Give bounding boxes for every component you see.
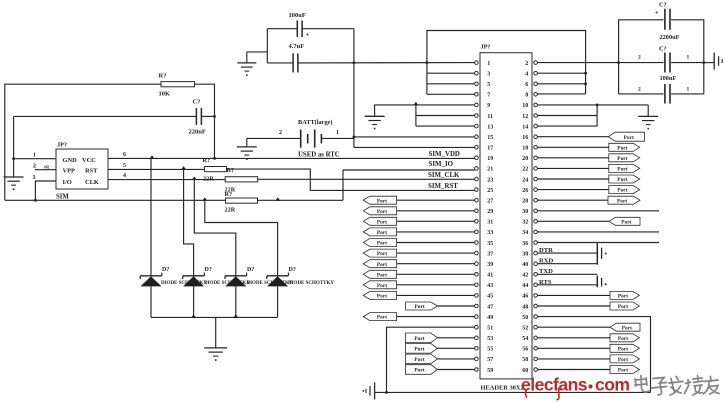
SIM I/O rail xyxy=(5,199,343,201)
battery BATT(large) xyxy=(298,119,340,159)
wire pin51 to ground rail xyxy=(385,327,475,394)
capacitor C? 220nF xyxy=(189,99,206,136)
svg-text:Port: Port xyxy=(618,346,628,352)
svg-text:41: 41 xyxy=(487,273,493,279)
net label RTS xyxy=(539,279,552,286)
svg-text:1: 1 xyxy=(487,61,490,67)
svg-text:50: 50 xyxy=(522,315,528,321)
svg-text:Port: Port xyxy=(618,294,628,300)
svg-text:29: 29 xyxy=(487,209,493,215)
capacitor C? 2200uF xyxy=(655,2,680,42)
svg-text:Port: Port xyxy=(617,188,627,194)
watermark elecfans.com xyxy=(521,375,629,395)
svg-text:JP?: JP? xyxy=(481,44,491,51)
svg-text:VCC: VCC xyxy=(82,157,96,164)
svg-text:36: 36 xyxy=(522,241,528,247)
svg-text:SIM_CLK: SIM_CLK xyxy=(428,172,460,179)
svg-text:2: 2 xyxy=(279,130,282,136)
wire VCC top bus xyxy=(427,31,587,95)
wire RST to pin25 xyxy=(226,169,474,190)
svg-text:21: 21 xyxy=(487,167,493,173)
capacitor C? 4.7uF xyxy=(289,43,305,72)
cap box wires xyxy=(617,20,705,94)
svg-text:2: 2 xyxy=(33,164,36,170)
svg-text:D?: D? xyxy=(162,267,169,273)
wire cap box to ground xyxy=(704,62,714,64)
watermark chinese 电子发烧友 xyxy=(635,376,719,396)
ground G5 xyxy=(365,116,385,129)
ground G6 xyxy=(638,116,658,129)
svg-text:26: 26 xyxy=(522,188,528,194)
svg-text:13: 13 xyxy=(487,124,493,130)
resistor R? 22R (RST) xyxy=(203,157,227,182)
svg-text:SIM_RST: SIM_RST xyxy=(428,183,458,190)
port flag pin52 xyxy=(537,323,640,331)
svg-text:GND: GND xyxy=(63,157,78,164)
wire CLK to pin23 xyxy=(258,178,475,180)
wire pin38 DTR xyxy=(537,252,597,254)
svg-text:1: 1 xyxy=(687,87,690,93)
port flag pin47 xyxy=(406,302,475,310)
svg-text:Port: Port xyxy=(377,272,387,278)
svg-text:14: 14 xyxy=(522,124,528,130)
svg-text:Port: Port xyxy=(377,241,387,247)
svg-text:4: 4 xyxy=(525,72,528,78)
SIM pin4 wire xyxy=(108,173,225,179)
ground G1 xyxy=(4,177,24,190)
svg-text:R?: R? xyxy=(203,157,211,164)
svg-text:58: 58 xyxy=(522,357,528,363)
svg-text:27: 27 xyxy=(487,199,493,205)
wire pin34 stub xyxy=(537,231,659,233)
net label SIM_VDD xyxy=(429,151,460,158)
connector JP? HEADER 30X2 xyxy=(475,44,538,392)
ground rail bottom xyxy=(375,391,651,393)
svg-text:Port: Port xyxy=(621,219,631,225)
svg-text:42: 42 xyxy=(522,273,528,279)
svg-text:D?: D? xyxy=(247,267,254,273)
port flags pins 18-26 xyxy=(537,143,639,193)
svg-text:1: 1 xyxy=(336,130,339,136)
svg-text:Port: Port xyxy=(377,209,387,215)
svg-text:44: 44 xyxy=(522,283,528,289)
svg-text:CLK: CLK xyxy=(85,179,99,186)
svg-text:Port: Port xyxy=(617,198,627,204)
svg-text:19: 19 xyxy=(487,156,493,162)
resistor R? 10K xyxy=(159,73,195,98)
svg-text:D?: D? xyxy=(289,267,296,273)
svg-text:5: 5 xyxy=(487,82,490,88)
svg-text:3: 3 xyxy=(33,175,36,181)
svg-text:SIM_IO: SIM_IO xyxy=(429,161,454,168)
svg-text:60: 60 xyxy=(522,368,528,374)
diode D4 (SCHOTTKY) xyxy=(205,200,335,317)
wire pin42 TXD xyxy=(537,273,597,275)
svg-text:Port: Port xyxy=(377,315,387,321)
svg-text:52: 52 xyxy=(522,326,528,332)
wire VCC to pin17 xyxy=(354,146,475,148)
wire caps right vertical xyxy=(353,29,356,148)
svg-text:C?: C? xyxy=(193,99,201,106)
svg-text:11: 11 xyxy=(487,114,493,120)
capacitor C? 100nF xyxy=(638,46,690,83)
wire pin30 stub xyxy=(537,210,659,212)
svg-text:JP?: JP? xyxy=(57,142,67,149)
svg-text:100uF: 100uF xyxy=(289,12,306,19)
junction arrow d2 xyxy=(181,166,186,169)
wire battery pin2 to ground xyxy=(247,130,301,147)
connector symbol J? (TXD/RTS) xyxy=(597,276,606,288)
svg-text:1: 1 xyxy=(687,55,690,61)
ground G8 (sideways right) xyxy=(714,53,722,70)
wire C1-right to vertical xyxy=(202,115,216,118)
svg-text:51: 51 xyxy=(487,326,493,332)
svg-text:com: com xyxy=(595,375,629,395)
svg-text:elecfans: elecfans xyxy=(521,375,588,395)
svg-text:Port: Port xyxy=(377,198,387,204)
svg-text:35: 35 xyxy=(487,241,493,247)
connector JP? SIM box xyxy=(56,142,108,201)
svg-text:16: 16 xyxy=(522,135,528,141)
svg-text:HEADER 30X2: HEADER 30X2 xyxy=(481,384,524,391)
svg-text:Port: Port xyxy=(624,135,634,141)
svg-text:R?: R? xyxy=(159,73,167,80)
resistor R? 22R (I/O) xyxy=(225,191,258,213)
svg-text:Port: Port xyxy=(617,145,627,151)
port flags pins 53-59 xyxy=(405,333,474,374)
diode D3 (SCHOTTKY) xyxy=(194,180,293,318)
SIM pin3 wire xyxy=(33,175,57,202)
svg-text:Port: Port xyxy=(377,294,387,300)
svg-text:8: 8 xyxy=(525,93,528,99)
svg-text:45: 45 xyxy=(487,294,493,300)
svg-text:Port: Port xyxy=(414,368,424,374)
svg-text:56: 56 xyxy=(522,347,528,353)
svg-text:4.7uF: 4.7uF xyxy=(289,43,305,50)
svg-text:39: 39 xyxy=(487,262,493,268)
svg-text:5: 5 xyxy=(123,163,126,169)
svg-text:D?: D? xyxy=(205,267,212,273)
svg-text:BATT(large): BATT(large) xyxy=(298,119,333,126)
wire IO rail up to pin21 xyxy=(343,170,475,200)
svg-text:2: 2 xyxy=(638,55,641,61)
junction arrow pins 9-13 xyxy=(414,102,419,105)
svg-text:32: 32 xyxy=(522,220,528,226)
svg-text:55: 55 xyxy=(487,347,493,353)
svg-text:38: 38 xyxy=(522,251,528,257)
svg-text:2: 2 xyxy=(525,61,528,67)
svg-text:22R: 22R xyxy=(225,207,236,214)
svg-text:30: 30 xyxy=(522,209,528,215)
svg-text:24: 24 xyxy=(522,177,528,183)
svg-text:Port: Port xyxy=(618,357,628,363)
wire pin2 to cap box xyxy=(537,62,618,64)
svg-text:Port: Port xyxy=(414,304,424,310)
svg-text:17: 17 xyxy=(487,146,493,152)
svg-text:53: 53 xyxy=(487,336,493,342)
svg-text:Port: Port xyxy=(414,357,424,363)
svg-text:Port: Port xyxy=(377,230,387,236)
wire pin50 to ground rail xyxy=(537,317,650,393)
diode common rail xyxy=(151,314,278,317)
svg-text:I/O: I/O xyxy=(63,179,72,186)
svg-text:31: 31 xyxy=(487,220,493,226)
wire pin10 to ground G6 xyxy=(537,104,648,117)
svg-text:USED as RTC: USED as RTC xyxy=(298,152,340,159)
svg-text:20: 20 xyxy=(522,156,528,162)
svg-text:+: + xyxy=(306,32,310,39)
diode D2 (SCHOTTKY) xyxy=(183,169,251,317)
svg-text:46: 46 xyxy=(522,294,528,300)
wire pin44 RTS xyxy=(537,284,597,286)
svg-text:SIM_VDD: SIM_VDD xyxy=(429,151,460,158)
ground G4 xyxy=(204,348,227,361)
svg-text:9: 9 xyxy=(487,103,490,109)
wire pin9 to ground G5 xyxy=(375,105,475,116)
port flags pins 46,48 xyxy=(537,291,639,310)
net label SIM_RST xyxy=(428,183,458,190)
net label SIM_IO xyxy=(429,161,454,168)
SIM pin6 SIM_VDD rail xyxy=(108,152,475,158)
SIM pin1 wire xyxy=(14,153,56,159)
junction arrow d4b xyxy=(276,197,281,200)
svg-text:C?: C? xyxy=(659,46,667,53)
svg-text:R?: R? xyxy=(225,191,233,198)
port flag pin28 xyxy=(537,196,640,204)
svg-text:7: 7 xyxy=(487,93,490,99)
wire pin40 RXD xyxy=(537,263,597,265)
svg-text:+: + xyxy=(655,10,659,17)
svg-text:54: 54 xyxy=(522,336,528,342)
SIM pin2 stub xyxy=(33,164,56,170)
wire VCC to pin15 xyxy=(354,136,475,138)
svg-text:37: 37 xyxy=(487,251,493,257)
svg-text:4: 4 xyxy=(123,173,126,179)
wire pins 11,13 bus xyxy=(416,105,475,126)
net label SIM_CLK xyxy=(428,172,460,179)
wire 100uF top xyxy=(267,28,354,30)
svg-text:Port: Port xyxy=(618,304,628,310)
svg-text:10K: 10K xyxy=(159,91,171,98)
svg-text:Port: Port xyxy=(622,325,632,331)
svg-text:Port: Port xyxy=(377,262,387,268)
svg-text:Port: Port xyxy=(617,167,627,173)
svg-text:23: 23 xyxy=(487,177,493,183)
SIM pin5 wire xyxy=(108,163,204,169)
wire caps left vertical xyxy=(266,29,268,63)
watermark swashes xyxy=(525,388,559,400)
junction arrow d3 xyxy=(192,176,197,179)
svg-text:57: 57 xyxy=(487,357,493,363)
svg-text:Port: Port xyxy=(617,177,627,183)
diode D1 (SCHOTTKY) xyxy=(140,158,207,317)
svg-text:3: 3 xyxy=(487,72,490,78)
svg-text:Port: Port xyxy=(618,336,628,342)
svg-text:220nF: 220nF xyxy=(189,129,206,136)
svg-text:43: 43 xyxy=(487,283,493,289)
svg-text:Port: Port xyxy=(377,219,387,225)
wire caps ground tap xyxy=(247,52,267,63)
svg-text:10: 10 xyxy=(522,103,528,109)
capacitor C? 100uF xyxy=(289,12,310,39)
port flag pin32 xyxy=(537,217,640,225)
svg-text:Port: Port xyxy=(377,251,387,257)
wire battery pin1 xyxy=(321,130,354,138)
svg-text:22R: 22R xyxy=(203,176,214,183)
svg-text:18: 18 xyxy=(522,146,528,152)
svg-text:48: 48 xyxy=(522,304,528,310)
svg-text:Port: Port xyxy=(414,336,424,342)
svg-text:6: 6 xyxy=(123,152,126,158)
svg-text:6: 6 xyxy=(525,82,528,88)
svg-text:Port: Port xyxy=(618,368,628,374)
svg-text:15: 15 xyxy=(487,135,493,141)
svg-text:2: 2 xyxy=(638,87,641,93)
svg-text:25: 25 xyxy=(487,188,493,194)
wire R1-left to far-left vertical xyxy=(5,84,161,200)
svg-text:Port: Port xyxy=(377,283,387,289)
svg-text:C?: C? xyxy=(659,2,667,9)
connector symbol J? (DTR/RXD) xyxy=(597,243,606,264)
svg-text:DIODE SCHOTTKY: DIODE SCHOTTKY xyxy=(288,281,334,286)
capacitor C? bottom xyxy=(638,84,690,104)
wire R1-right down to SIM_VDD rail xyxy=(195,84,216,160)
svg-text:R?: R? xyxy=(227,167,235,174)
net label TXD xyxy=(539,268,553,275)
svg-text:1: 1 xyxy=(33,153,36,159)
wire pin36 stub xyxy=(537,242,659,244)
net label DTR xyxy=(539,247,553,254)
svg-text:28: 28 xyxy=(522,199,528,205)
svg-text:RST: RST xyxy=(85,168,98,175)
ground G3 (battery) xyxy=(237,147,257,160)
wire pins12,14 bus xyxy=(537,105,597,126)
resistor R? 22R (CLK) xyxy=(225,167,258,193)
junction arrow d4a xyxy=(203,197,208,200)
net label RXD xyxy=(539,258,554,265)
svg-text:Port: Port xyxy=(617,156,627,162)
svg-text:SIM: SIM xyxy=(56,194,69,201)
svg-text:100nF: 100nF xyxy=(660,75,677,82)
svg-text:33: 33 xyxy=(487,230,493,236)
svg-text:Port: Port xyxy=(414,346,424,352)
svg-text:49: 49 xyxy=(487,315,493,321)
port flags pins 54-60 xyxy=(537,334,639,374)
port flags left column (pins 27-45,49) xyxy=(363,196,474,321)
wire C1-left / vertical to ground xyxy=(12,116,196,177)
svg-text:40: 40 xyxy=(522,262,528,268)
wire 4.7uF bottom / VCC to pin1 xyxy=(267,61,474,64)
svg-text:59: 59 xyxy=(487,368,493,374)
port flag pin16 xyxy=(537,132,644,141)
ground G2 (caps) xyxy=(237,63,256,76)
svg-text:2200uF: 2200uF xyxy=(660,34,680,41)
ground G7 (sideways) xyxy=(363,382,375,399)
svg-text:12: 12 xyxy=(522,114,528,120)
wire rail to ground G4 xyxy=(215,317,217,348)
junction arrow d1 xyxy=(150,155,155,158)
svg-text:47: 47 xyxy=(487,304,493,310)
svg-text:VPP: VPP xyxy=(63,168,76,175)
svg-text:34: 34 xyxy=(522,230,528,236)
svg-text:22: 22 xyxy=(522,167,528,173)
